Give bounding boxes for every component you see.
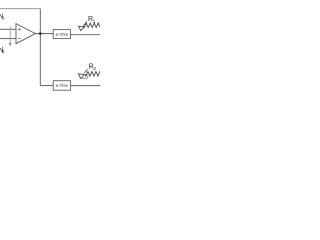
svg-text:e-Trim: e-Trim <box>56 83 69 88</box>
e-Trim box U2 <box>53 81 70 91</box>
wire noninverting input <box>0 28 16 30</box>
resistor R2 zigzag <box>85 72 100 77</box>
op-amp minus sign <box>18 38 21 40</box>
resistor R1 zigzag <box>83 23 100 28</box>
wire inverting input <box>0 38 16 40</box>
R1 trim arrow <box>79 21 88 30</box>
wire U1 output to right edge <box>71 34 101 36</box>
op-amp U3 triangle <box>16 24 35 44</box>
wire op-amp output to e-Trim U1 <box>35 33 53 35</box>
node output junction dot <box>39 32 42 35</box>
wire top feedback horizontal <box>0 8 40 10</box>
wire feedback vertical <box>39 9 41 86</box>
svg-text:1: 1 <box>93 19 96 25</box>
wire bottom to e-Trim U2 <box>40 85 53 87</box>
svg-text:2: 2 <box>2 49 5 54</box>
e-Trim box U1 <box>53 30 70 39</box>
svg-text:e-Trim: e-Trim <box>56 32 69 37</box>
wire U2 output to right edge <box>71 85 101 87</box>
R2 trim arrow <box>78 69 88 78</box>
svg-text:1: 1 <box>2 16 5 21</box>
input bias arrow <box>9 26 12 46</box>
op-amp plus sign <box>18 28 21 31</box>
svg-text:2: 2 <box>93 66 96 72</box>
